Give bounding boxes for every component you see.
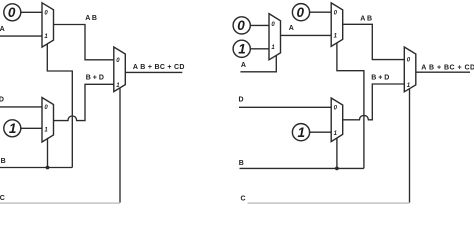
wire MUX7 output (B + D) to MUX6 input 1, hops over B feed xyxy=(343,84,405,120)
svg-text:A: A xyxy=(289,25,294,32)
svg-text:A: A xyxy=(241,62,246,69)
wire constant-1 to MUX7 input 1 xyxy=(310,131,332,133)
constant 1 source (circle) feeding MUX2 input 1 xyxy=(4,120,21,137)
wire B net xyxy=(240,167,364,169)
mux MUX4 (input buffer mux for A) xyxy=(269,14,281,60)
wire A to MUX1 input 1 xyxy=(0,35,42,37)
svg-text:C: C xyxy=(0,195,5,202)
svg-text:D: D xyxy=(0,96,4,103)
wire MUX1 output (A B) to MUX3 input 0 xyxy=(54,25,114,60)
constant 1 source (circle) feeding MUX4 input 1 xyxy=(233,40,250,57)
svg-text:B + D: B + D xyxy=(86,74,104,81)
svg-text:B: B xyxy=(1,158,6,165)
svg-text:0: 0 xyxy=(297,5,305,20)
wire MUX3 select to C net xyxy=(119,88,121,202)
svg-text:A: A xyxy=(0,26,5,33)
mux MUX6 (output 2:1 mux, right circuit) xyxy=(404,47,416,92)
svg-text:A B: A B xyxy=(360,16,372,23)
svg-text:A B + BC + CD: A B + BC + CD xyxy=(133,64,185,71)
wire constant-0 to MUX4 input 0 xyxy=(250,24,269,26)
wire constant-0 to MUX1 input 0 xyxy=(21,11,42,13)
wire constant-0 to MUX5 input 0 xyxy=(310,11,332,13)
wire MUX1 select from B net xyxy=(47,44,72,168)
wire C net (light) xyxy=(248,202,410,204)
svg-text:B: B xyxy=(239,160,244,167)
wire MUX5 select from B net xyxy=(337,43,364,168)
svg-text:0: 0 xyxy=(8,5,16,20)
wire MUX3 output xyxy=(125,71,182,73)
mux MUX1 (top-left 2:1 mux) xyxy=(42,3,54,47)
svg-text:B + D: B + D xyxy=(371,74,389,81)
wire B net xyxy=(0,167,72,169)
wire D to MUX2 input 0 xyxy=(0,106,42,108)
constant 0 source (circle) feeding MUX4 input 0 xyxy=(233,17,250,34)
wire D to MUX7 input 0 xyxy=(239,106,331,108)
svg-text:A B: A B xyxy=(85,15,97,22)
wire constant-1 to MUX4 input 1 xyxy=(250,48,269,50)
constant 1 source (circle) feeding MUX7 input 1 xyxy=(292,124,309,141)
wire MUX6 select to C net xyxy=(409,89,411,203)
constant 0 source (circle) feeding MUX1 input 0 xyxy=(4,4,21,21)
svg-text:1: 1 xyxy=(238,42,246,57)
wire constant-1 to MUX2 input 1 xyxy=(21,127,42,129)
svg-text:D: D xyxy=(239,97,244,104)
constant 0 source (circle) feeding MUX5 input 0 xyxy=(292,4,309,21)
svg-text:A B + BC + CD: A B + BC + CD xyxy=(421,65,474,72)
wire MUX2 output (B + D) to MUX3 input 1, hops over B feed xyxy=(54,84,114,120)
mux MUX2 (bottom-left 2:1 mux) xyxy=(42,98,54,143)
wire MUX4 output (A) to MUX5 input 1 xyxy=(281,34,332,36)
junction dot on B net at MUX2 select xyxy=(46,166,50,170)
wire MUX7 select to B net xyxy=(336,138,338,168)
mux MUX7 (bottom 2:1 mux, right circuit) xyxy=(331,98,343,142)
junction dot on B net at MUX7 select xyxy=(335,167,339,171)
wire MUX2 select to B net xyxy=(47,139,49,168)
wire MUX5 output (A B) to MUX6 input 0 xyxy=(343,24,405,59)
wire MUX6 output xyxy=(416,71,470,73)
wire A select to MUX4 xyxy=(240,56,276,72)
svg-text:0: 0 xyxy=(237,18,245,33)
mux MUX3 (output 2:1 mux) xyxy=(114,47,126,92)
svg-text:1: 1 xyxy=(9,121,17,136)
wire C net (light) xyxy=(0,202,120,204)
svg-text:1: 1 xyxy=(298,125,306,140)
mux MUX5 (top 2:1 mux, right circuit) xyxy=(331,3,343,47)
svg-text:C: C xyxy=(241,195,246,202)
